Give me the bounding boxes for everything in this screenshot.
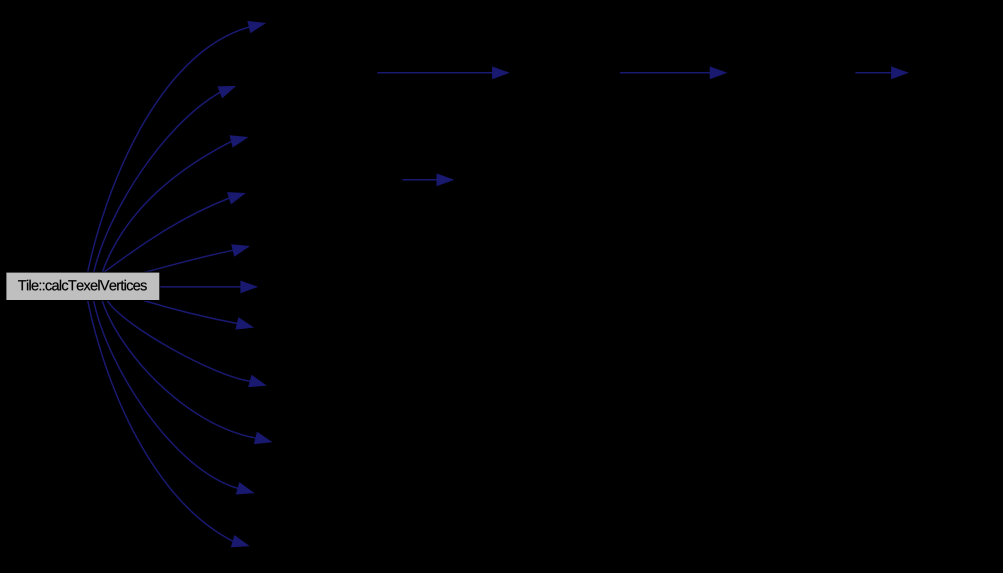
- second-level edge (row1 col2->col3): [377, 67, 508, 78]
- edge root->callee 1 (top): [88, 21, 265, 273]
- edge root->callee 6 (horizontal): [159, 281, 257, 292]
- edge root->callee 3: [102, 136, 247, 273]
- edge root->callee 9: [102, 300, 271, 444]
- edge root->callee 2: [94, 86, 235, 273]
- third-level edge (row1 col3->col4): [620, 67, 726, 78]
- root node label Tile::calcTexelVertices: [18, 280, 147, 291]
- edge root->callee 7: [142, 300, 253, 329]
- second-level edge (row3 col2->col3): [402, 174, 452, 185]
- edge root->callee 10: [94, 300, 254, 494]
- edge root->callee 4: [103, 193, 245, 273]
- edge root->callee 5: [142, 245, 249, 273]
- root node box: [6, 272, 160, 300]
- fourth-level edge (row1 col4->col5): [855, 67, 907, 78]
- edge root->callee 11 (bottom): [88, 300, 249, 547]
- edge root->callee 8: [107, 300, 266, 387]
